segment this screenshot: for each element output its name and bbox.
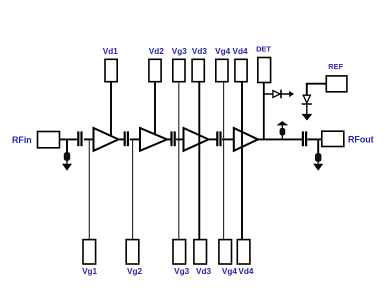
Vd4 pad bottom [237, 240, 250, 264]
diode D2 (reference) [303, 95, 310, 103]
wire C1 to amp1 input [84, 138, 94, 140]
capacitor C5 (output blocking cap) [302, 131, 304, 146]
wire Vg1 bias line [88, 139, 90, 240]
wire amp1 output [119, 138, 125, 140]
Vd4 pad top [235, 59, 247, 81]
svg-text:RFout: RFout [348, 135, 374, 145]
capacitor C3 (interstage 2-3) [170, 131, 172, 146]
svg-text:Vg4: Vg4 [222, 267, 237, 276]
wire RFin pad to input cap [60, 138, 79, 140]
wire C2 to amp2 input [130, 138, 141, 140]
svg-text:Vd3: Vd3 [192, 47, 207, 56]
wire REF to reference diode [307, 84, 327, 96]
svg-text:Vd1: Vd1 [103, 47, 118, 56]
svg-text:Vg3: Vg3 [174, 267, 189, 276]
svg-text:Vd4: Vd4 [238, 267, 253, 276]
Vg3 pad top [173, 59, 185, 81]
capacitor C4 (interstage 3-4) [216, 131, 218, 146]
via inductor at input node [64, 153, 70, 161]
svg-text:RFin: RFin [12, 135, 32, 145]
wire diode to ground [306, 104, 308, 114]
RFout pad [322, 131, 344, 146]
svg-text:Vd3: Vd3 [196, 267, 211, 276]
wire Vd4 feed line (top pad through amp4 to bottom pad) [241, 82, 243, 240]
op-amp A4 [234, 128, 258, 151]
Vd2 pad [149, 59, 161, 81]
Vd3 pad bottom [194, 240, 207, 264]
wire detector branch [264, 93, 290, 95]
arrowhead detector output [289, 91, 294, 97]
Vg4 pad top [216, 59, 228, 81]
wire C3 to amp3 input [176, 138, 184, 140]
svg-text:Vd2: Vd2 [149, 47, 164, 56]
capacitor C1 (input blocking cap) [77, 131, 79, 146]
op-amp A1 [94, 128, 119, 151]
svg-text:Vg3: Vg3 [172, 47, 187, 56]
wire DET to RF line [263, 83, 265, 140]
ground arrow up [277, 121, 289, 125]
Vd1 pad [105, 59, 117, 81]
Vg2 pad bottom [126, 240, 139, 264]
REF pad [326, 76, 347, 92]
wire Vd3 feed line (top pad through amp3 to bottom pad) [198, 82, 200, 240]
svg-text:Vd4: Vd4 [232, 47, 247, 56]
wire shunt stub at input node [66, 139, 68, 153]
RFin pad [38, 132, 60, 148]
Vd3 pad top [192, 59, 204, 81]
svg-text:Vg4: Vg4 [215, 47, 230, 56]
Vg4 pad bottom [219, 240, 232, 264]
diode D1 (detector) [273, 91, 280, 98]
wire Vd1 feed [110, 82, 112, 137]
wire amp2 output [167, 138, 171, 140]
Vg1 pad bottom [83, 240, 96, 264]
wire amp4 output to output cap [258, 138, 302, 140]
svg-text:REF: REF [328, 62, 343, 71]
op-amp A3 [184, 128, 209, 151]
via inductor at RFout node [315, 154, 321, 162]
ground arrow at RFout node [313, 164, 323, 171]
wire shunt stub up at output node [281, 125, 283, 139]
DET pad [258, 58, 271, 83]
svg-text:Vg1: Vg1 [82, 267, 97, 276]
svg-text:DET: DET [256, 44, 271, 53]
via inductor at output node (up) [280, 128, 285, 135]
svg-text:Vg2: Vg2 [127, 267, 142, 276]
wire Vg4 bias line (top pad to bottom pad) [223, 82, 225, 240]
wire Vg2 bias line [132, 139, 134, 240]
Vg3 pad bottom [173, 240, 186, 264]
wire C5 to RFout pad [308, 138, 323, 140]
wire amp3 output [209, 138, 217, 140]
capacitor C2 (interstage 1-2) [124, 131, 126, 146]
ground arrow at input node [62, 164, 72, 171]
ground arrow below reference diode [302, 114, 313, 121]
wire via to ground [317, 161, 319, 164]
wire Vg3 bias line (top pad to bottom pad) [178, 82, 180, 240]
wire via to ground [66, 160, 68, 164]
wire shunt stub at RFout node [317, 139, 319, 154]
wire C4 to amp4 input [222, 138, 234, 140]
op-amp A2 [140, 128, 167, 151]
wire Vd2 feed [154, 82, 156, 136]
